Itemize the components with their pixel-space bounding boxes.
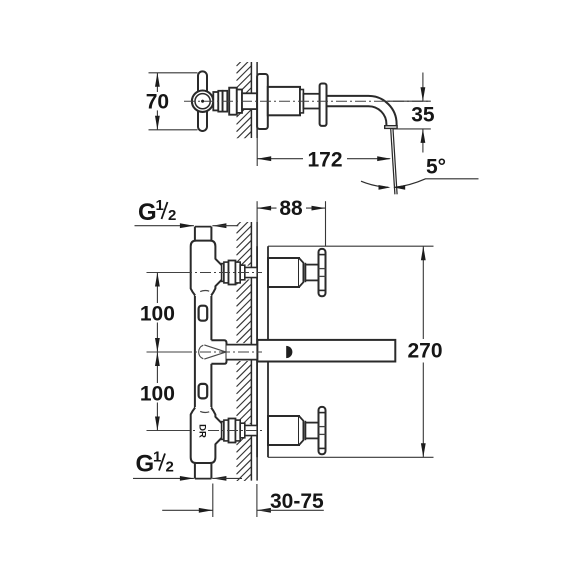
svg-text:5°: 5° — [426, 156, 446, 179]
svg-text:2: 2 — [166, 459, 174, 476]
svg-text:1: 1 — [156, 197, 164, 214]
svg-text:88: 88 — [279, 197, 303, 220]
svg-text:35: 35 — [411, 104, 435, 127]
svg-text:270: 270 — [407, 340, 442, 363]
svg-text:1: 1 — [153, 449, 161, 466]
svg-text:172: 172 — [307, 148, 342, 171]
svg-text:30-75: 30-75 — [270, 490, 324, 513]
svg-text:100: 100 — [140, 302, 175, 325]
svg-text:G: G — [138, 199, 157, 226]
svg-text:70: 70 — [146, 91, 169, 114]
svg-text:G: G — [136, 451, 155, 478]
svg-text:100: 100 — [140, 382, 175, 405]
svg-text:DR: DR — [196, 424, 207, 438]
svg-text:2: 2 — [168, 207, 176, 224]
